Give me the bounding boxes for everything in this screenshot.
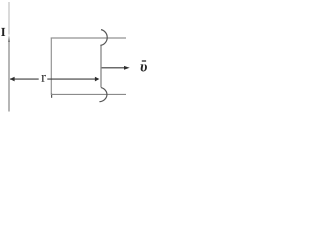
frame left side (50, 38, 52, 95)
frame left side overshoot below bottom rail (51, 94, 53, 98)
dimension line r: left segment (10, 78, 39, 80)
bottom rail (51, 93, 126, 95)
label r (41, 75, 45, 82)
label I (1, 28, 5, 36)
wire W1 (long straight wire, upper light part) (8, 2, 10, 35)
dimension line r: right segment (47, 78, 95, 80)
label v (upsilon) (141, 64, 147, 71)
top rail (51, 37, 126, 39)
rod straight segment (100, 45, 102, 87)
velocity arrow (102, 67, 125, 69)
rod top hook over top rail (100, 30, 107, 46)
rod bottom hook over bottom rail (99, 88, 107, 102)
label v-bar macron (142, 60, 146, 62)
right arrowhead at rod (95, 77, 100, 82)
left arrowhead at wire (10, 77, 15, 82)
current direction arrowhead on wire (8, 35, 10, 42)
wire W1 lower part (8, 41, 10, 112)
